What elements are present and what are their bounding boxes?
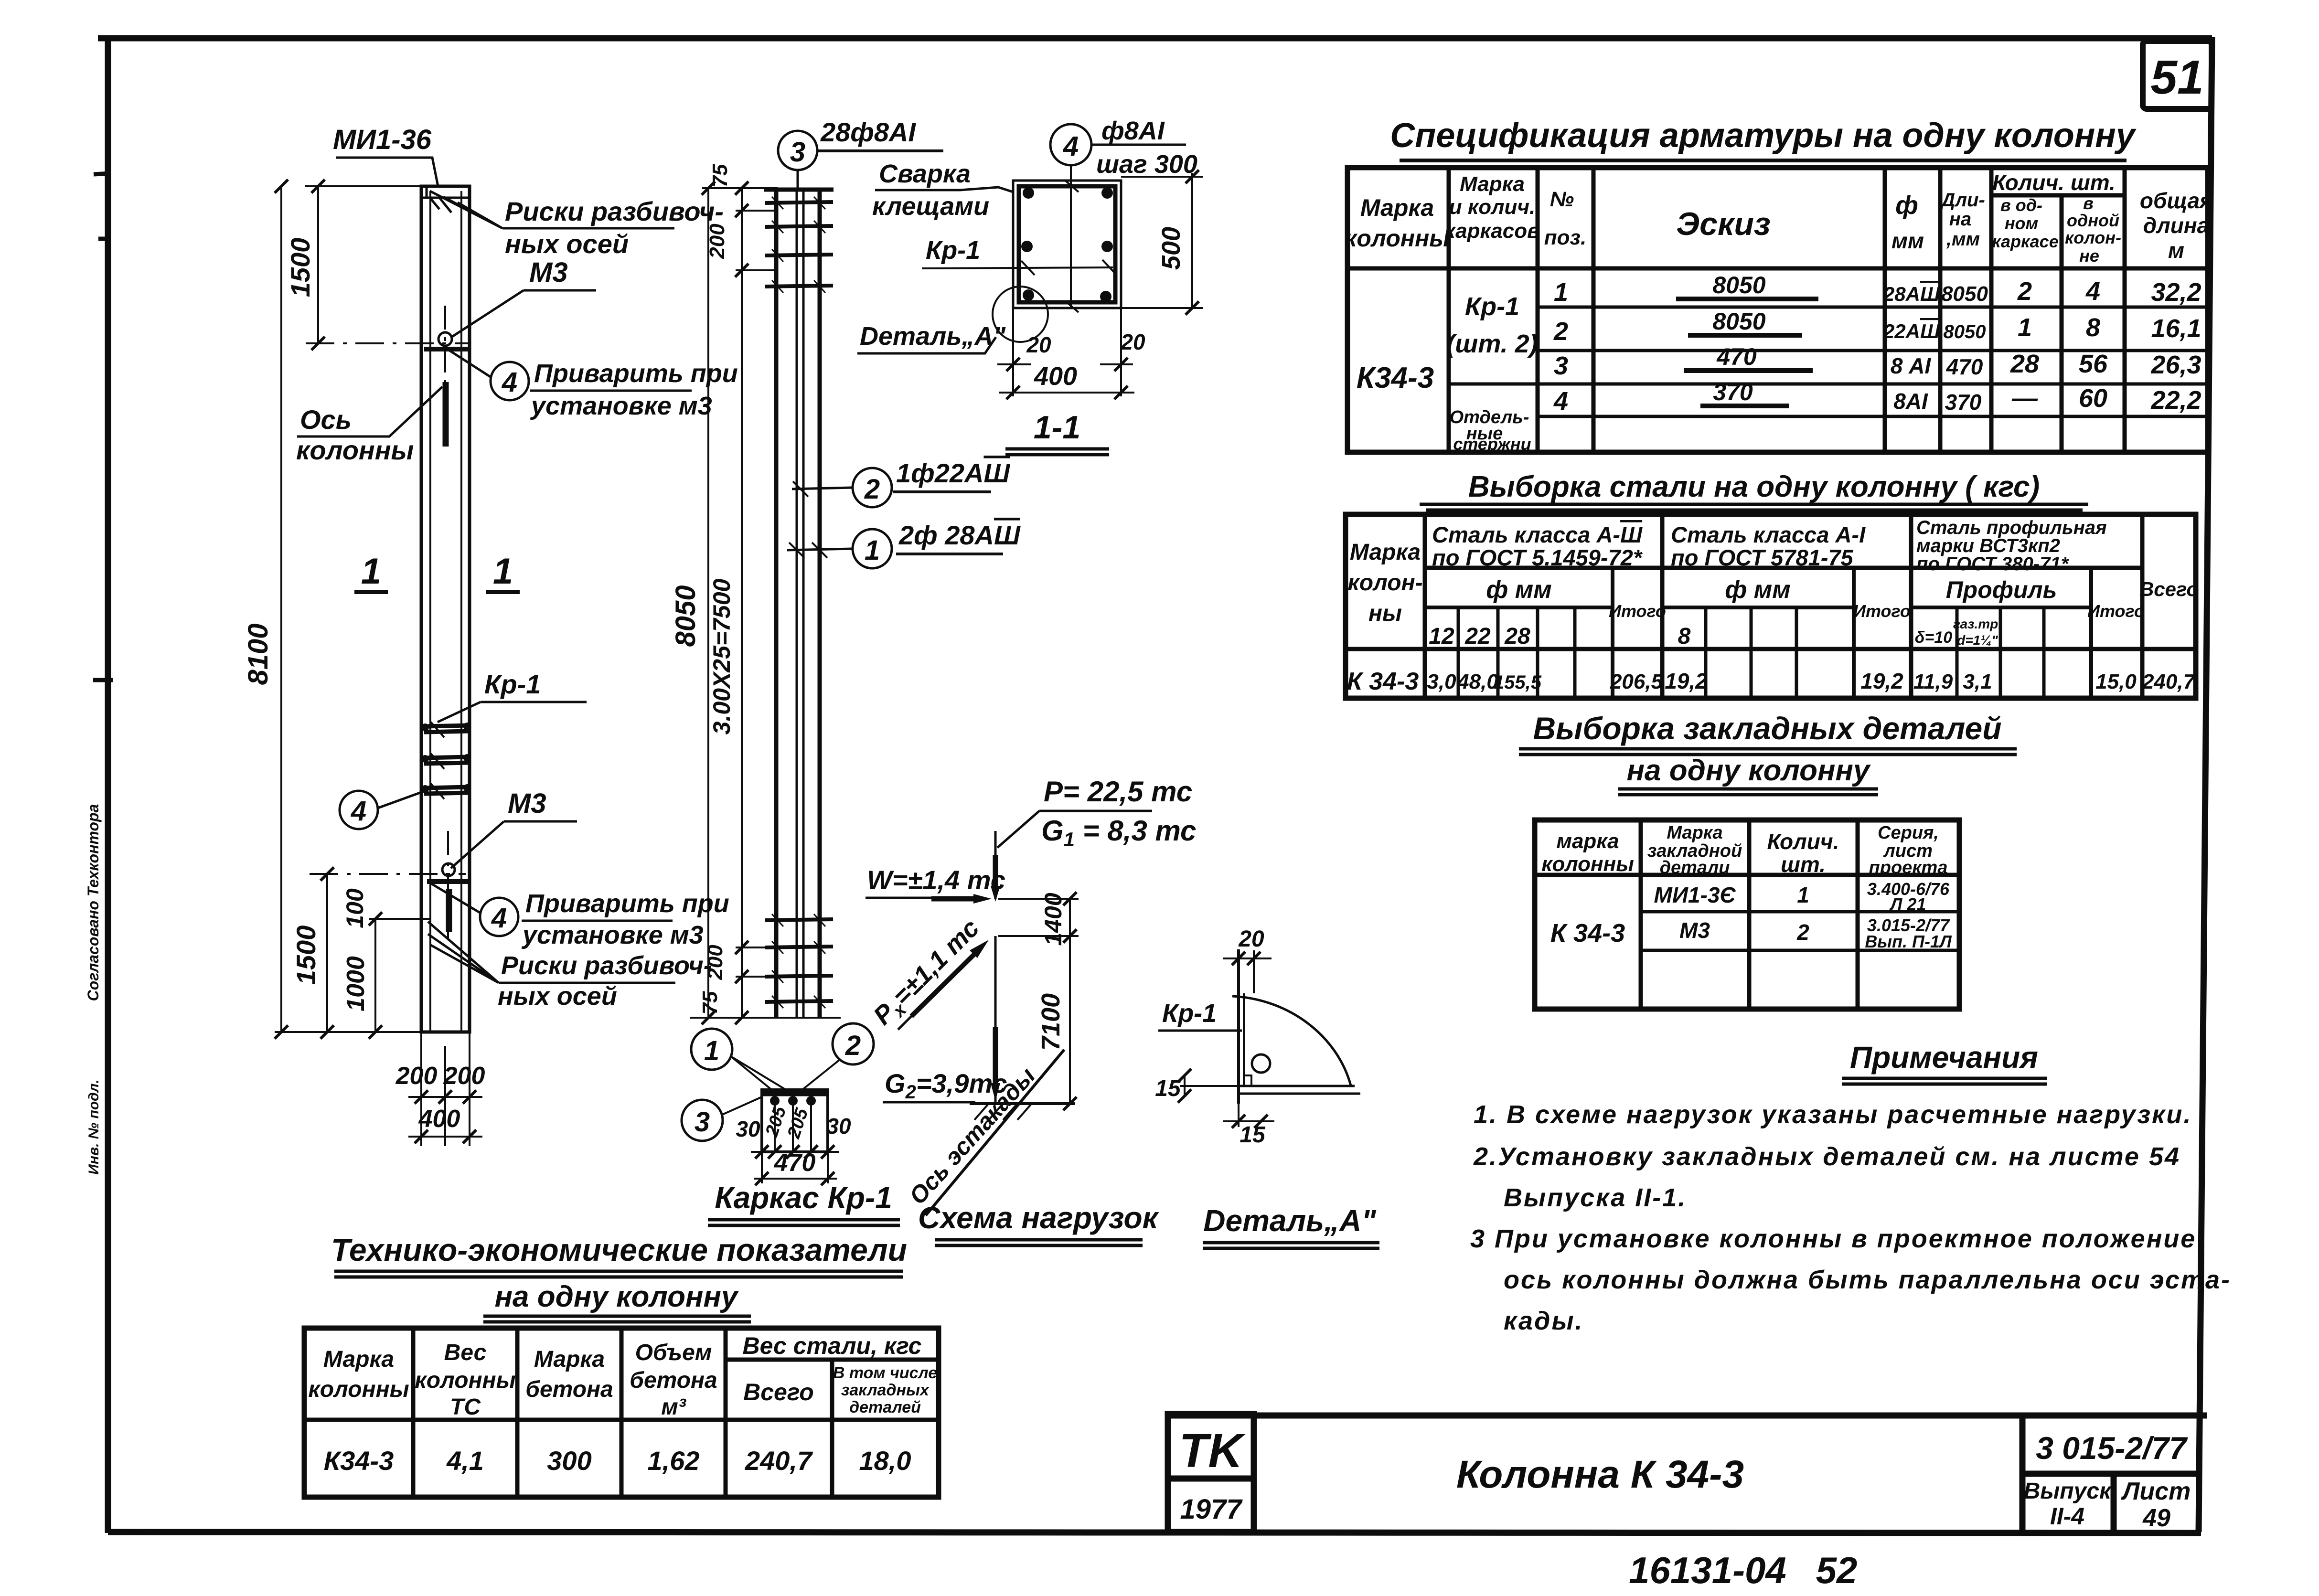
svg-text:колонны: колонны <box>1541 852 1634 876</box>
svg-text:8: 8 <box>1678 624 1691 649</box>
svg-text:по ГОСТ 5.1459-72*: по ГОСТ 5.1459-72* <box>1432 545 1643 570</box>
svg-text:Профиль: Профиль <box>1946 576 2057 603</box>
svg-text:колонны: колонны <box>1345 225 1450 252</box>
svg-text:3,1: 3,1 <box>1963 670 1992 693</box>
notes title: Примечания <box>1842 1040 2047 1084</box>
notes text <box>1470 1100 2231 1335</box>
svg-text:18,0: 18,0 <box>859 1446 911 1476</box>
svg-text:Сталь класса А-І: Сталь класса А-І <box>1671 522 1866 547</box>
svg-text:75: 75 <box>698 991 722 1014</box>
svg-text:3: 3 <box>1554 351 1568 380</box>
caption Схема нагрузок <box>918 1201 1160 1245</box>
svg-text:ф мм: ф мм <box>1486 576 1551 604</box>
plan callouts 1 2 3 <box>682 1023 874 1141</box>
svg-text:11,9: 11,9 <box>1913 670 1953 693</box>
handwritten inventory number <box>1629 1549 1857 1591</box>
svg-text:1: 1 <box>2018 313 2032 342</box>
svg-text:м: м <box>2168 238 2184 263</box>
label Кр-1 with long leader <box>922 236 1116 275</box>
dimension 15 (detail bottom) <box>1223 1104 1274 1148</box>
svg-text:32,2: 32,2 <box>2151 278 2201 307</box>
cage stirrups top <box>765 197 833 293</box>
callout 3 with label 28ф8АІ <box>778 117 943 189</box>
label Риски разбивочных осей (top) <box>430 191 724 259</box>
svg-text:100: 100 <box>342 888 368 928</box>
svg-text:8 АІ: 8 АІ <box>1891 353 1932 378</box>
dimension 100 / 1000 (lower) <box>342 888 430 1039</box>
svg-text:49: 49 <box>2142 1504 2170 1532</box>
section outline <box>1013 181 1121 396</box>
svg-text:II-4: II-4 <box>2050 1503 2084 1530</box>
svg-text:1-1: 1-1 <box>1034 409 1080 446</box>
svg-text:470: 470 <box>774 1149 816 1177</box>
callout 4 (mid) <box>340 790 427 829</box>
svg-text:,мм: ,мм <box>1946 229 1980 250</box>
svg-text:56: 56 <box>2079 350 2108 378</box>
dimensions 20 20 (cover) <box>997 330 1145 371</box>
svg-text:200: 200 <box>704 945 727 980</box>
dimension 1500 (top) <box>285 180 423 350</box>
svg-text:20: 20 <box>1238 926 1264 952</box>
svg-text:на одну колонну: на одну колонну <box>1627 754 1871 787</box>
fold tick marks on left border <box>93 173 113 680</box>
svg-text:ных осей: ных осей <box>498 982 617 1011</box>
label Сварка клещами <box>872 160 1013 221</box>
table 2 title: Выборка стали <box>1420 470 2088 510</box>
wind load W arrow <box>866 865 1005 904</box>
svg-text:К 34-3: К 34-3 <box>1550 919 1625 947</box>
table 2 data row <box>1347 668 2196 695</box>
svg-text:2: 2 <box>2017 277 2032 306</box>
cage longitudinal bars <box>764 188 834 1018</box>
svg-text:15,0: 15,0 <box>2095 670 2137 693</box>
svg-text:200: 200 <box>395 1062 438 1090</box>
svg-text:470: 470 <box>1716 343 1757 370</box>
svg-text:4: 4 <box>502 367 517 398</box>
svg-text:500: 500 <box>1157 227 1186 270</box>
dimension 1400 <box>998 892 1079 946</box>
table 3 title: Выборка закладных деталей <box>1519 711 2017 795</box>
dimension 1500 (lower) <box>291 867 334 1039</box>
label Риски разбивочных осей (lower) <box>428 922 712 1011</box>
svg-text:в од-: в од- <box>2000 195 2042 215</box>
svg-text:15: 15 <box>1155 1076 1181 1101</box>
svg-text:Dеталь„А": Dеталь„А" <box>1203 1203 1376 1238</box>
title block: drawing name <box>1456 1453 1744 1496</box>
load axis with arrows <box>991 831 1000 1104</box>
svg-text:ных осей: ных осей <box>505 229 629 259</box>
svg-text:Каркас Кр-1: Каркас Кр-1 <box>715 1181 892 1215</box>
dimension 15 (detail left) <box>1155 1069 1239 1103</box>
svg-text:колон-: колон- <box>1347 570 1422 596</box>
svg-text:Вес стали, кгс: Вес стали, кгс <box>743 1332 922 1359</box>
svg-text:м³: м³ <box>661 1394 687 1420</box>
svg-text:Колич. шт.: Колич. шт. <box>1992 170 2116 195</box>
svg-text:2: 2 <box>864 474 880 505</box>
callout 2 with label 1ф22АШ <box>792 458 1010 507</box>
svg-text:бетона: бетона <box>630 1368 717 1393</box>
svg-text:№: № <box>1550 188 1574 211</box>
svg-text:Эскиз: Эскиз <box>1676 206 1770 242</box>
TK logo box <box>1168 1414 1254 1479</box>
TEP table data row <box>324 1446 911 1476</box>
table 2 header texts <box>1347 517 2199 649</box>
stirrup bars in left column <box>421 722 471 799</box>
svg-text:12: 12 <box>1429 624 1454 649</box>
svg-text:30: 30 <box>826 1114 851 1138</box>
dimension 500 (right) <box>1121 170 1203 315</box>
svg-text:шаг 300: шаг 300 <box>1096 150 1197 179</box>
svg-text:δ=10: δ=10 <box>1915 628 1953 647</box>
svg-text:3.00X25=7500: 3.00X25=7500 <box>708 578 735 734</box>
svg-text:1500: 1500 <box>291 926 321 985</box>
svg-text:200: 200 <box>443 1062 485 1090</box>
label G2 <box>883 1068 1007 1103</box>
svg-text:колон-: колон- <box>2065 228 2121 247</box>
svg-text:Согласовано Техконтора: Согласовано Техконтора <box>85 804 102 1001</box>
svg-text:8050: 8050 <box>1712 308 1765 335</box>
svg-text:1. В схеме нагрузок указаны: 1. В схеме нагрузок указаны расчетные на… <box>1474 1100 2192 1129</box>
label М3 (lower) with leader <box>451 788 577 868</box>
table 1 frame: спецификация арматуры <box>1347 168 2208 452</box>
svg-text:шт.: шт. <box>1781 852 1826 877</box>
svg-text:28АШ: 28АШ <box>1883 283 1940 305</box>
svg-text:22,2: 22,2 <box>2150 386 2201 415</box>
TEP table texts <box>308 1332 937 1420</box>
svg-text:каркасов: каркасов <box>1444 219 1539 243</box>
svg-text:проекта: проекта <box>1869 858 1948 878</box>
svg-text:клещами: клещами <box>872 192 989 221</box>
cage plan rectangle <box>762 1090 828 1152</box>
section labels 1 1 <box>354 551 520 592</box>
svg-text:1: 1 <box>704 1035 719 1066</box>
svg-text:15: 15 <box>1240 1122 1266 1148</box>
svg-text:Кр-1: Кр-1 <box>484 669 541 699</box>
svg-text:60: 60 <box>2079 384 2107 413</box>
svg-text:26,3: 26,3 <box>2150 351 2201 379</box>
svg-text:48,0: 48,0 <box>1457 670 1498 693</box>
svg-text:К 34-3: К 34-3 <box>1347 668 1419 695</box>
bottom dimensions 200 200 400 of left column <box>395 1032 485 1146</box>
embedded plate МИ1-36 at column top <box>421 186 470 213</box>
title block: series <box>2024 1430 2191 1532</box>
svg-text:W=±1,4 тс: W=±1,4 тс <box>867 865 1005 895</box>
caption 1-1 <box>1005 409 1109 455</box>
svg-text:по ГОСТ 380-71*: по ГОСТ 380-71* <box>1916 553 2070 575</box>
svg-text:Выборка закладных деталей: Выборка закладных деталей <box>1533 711 2001 746</box>
svg-text:Марка: Марка <box>1360 194 1434 221</box>
svg-text:Сварка: Сварка <box>879 160 971 188</box>
svg-text:МИ1-3Є: МИ1-3Є <box>1654 883 1736 907</box>
svg-text:Л 21: Л 21 <box>1889 894 1926 914</box>
svg-text:ны: ны <box>1368 601 1402 626</box>
svg-text:2: 2 <box>1553 317 1568 346</box>
svg-text:4: 4 <box>1063 131 1079 162</box>
svg-text:Вес: Вес <box>444 1340 487 1365</box>
svg-text:Dеталь„А": Dеталь„А" <box>860 322 1006 351</box>
svg-text:1977: 1977 <box>1180 1494 1243 1525</box>
svg-text:К34-3: К34-3 <box>324 1446 394 1476</box>
dimension 400 (bottom) <box>999 362 1134 399</box>
cage stirrups bottom <box>765 914 833 1008</box>
svg-text:8050: 8050 <box>1941 282 1988 306</box>
svg-text:75: 75 <box>708 164 732 187</box>
svg-text:20: 20 <box>1120 330 1145 354</box>
label М3 (upper) with leader <box>451 257 596 337</box>
ground line with hatching <box>970 1104 1075 1120</box>
svg-text:240,7: 240,7 <box>2142 670 2196 693</box>
svg-text:30: 30 <box>736 1117 760 1141</box>
vertical stamp text left margin <box>85 804 102 1175</box>
label МИ1-36 <box>333 124 438 186</box>
svg-text:370: 370 <box>1945 390 1982 415</box>
svg-text:22: 22 <box>1464 624 1491 649</box>
rebar dots in section <box>1021 187 1113 302</box>
svg-text:155,5: 155,5 <box>1494 672 1542 693</box>
svg-text:3: 3 <box>790 137 805 168</box>
svg-text:Колич.: Колич. <box>1767 829 1839 854</box>
svg-text:(шт. 2): (шт. 2) <box>1446 330 1538 358</box>
plate and curve of detail A <box>1232 949 1360 1104</box>
column axis dash-dot (lower) <box>310 831 466 938</box>
svg-text:одной: одной <box>2067 211 2119 230</box>
column axis dash-dot (upper) <box>306 306 468 382</box>
svg-text:8050: 8050 <box>1944 321 1986 342</box>
svg-text:28ф8АІ: 28ф8АІ <box>820 117 916 147</box>
svg-text:300: 300 <box>547 1446 591 1476</box>
svg-text:7100: 7100 <box>1037 993 1065 1051</box>
svg-text:ф8АІ: ф8АІ <box>1101 117 1165 145</box>
svg-text:поз.: поз. <box>1544 226 1586 249</box>
svg-text:на одну колонну: на одну колонну <box>495 1280 739 1313</box>
svg-text:16131-04: 16131-04 <box>1629 1549 1786 1591</box>
svg-text:1: 1 <box>361 551 381 592</box>
table 1 row data <box>1357 272 2201 454</box>
svg-text:детали: детали <box>1660 858 1730 878</box>
svg-text:28: 28 <box>1504 624 1530 649</box>
svg-text:3 При установке колонны в: 3 При установке колонны в проектное поло… <box>1470 1224 2196 1253</box>
svg-text:Итого: Итого <box>1609 601 1666 621</box>
svg-text:кады.: кады. <box>1504 1307 1584 1335</box>
svg-text:Примечания: Примечания <box>1850 1040 2038 1075</box>
svg-text:Кр-1: Кр-1 <box>926 236 980 265</box>
svg-text:колонны: колонны <box>296 435 414 465</box>
svg-text:Выборка стали на одну коло: Выборка стали на одну колонну ( кгс) <box>1468 470 2040 503</box>
svg-text:1: 1 <box>865 535 880 566</box>
dimension 8100 (overall) <box>243 180 425 1039</box>
svg-text:не: не <box>2079 246 2099 266</box>
svg-text:Всего: Всего <box>743 1379 814 1405</box>
svg-text:мм: мм <box>1892 228 1924 253</box>
svg-text:стержни: стержни <box>1453 434 1531 454</box>
caption Каркас Кр-1 <box>708 1181 900 1225</box>
svg-text:Вып. П-1Л: Вып. П-1Л <box>1865 932 1952 951</box>
svg-text:Сталь класса А-Ш: Сталь класса А-Ш <box>1432 522 1643 547</box>
column body outline <box>421 186 470 1032</box>
svg-text:240,7: 240,7 <box>745 1446 813 1476</box>
svg-text:МИ1-36: МИ1-36 <box>333 124 432 155</box>
svg-text:ось колонны должна быть па: ось колонны должна быть параллельна оси … <box>1504 1266 2231 1294</box>
svg-text:каркасе: каркасе <box>1992 232 2058 251</box>
plan dimensions 30 205 205 30 470 <box>736 1104 851 1185</box>
svg-text:ф мм: ф мм <box>1725 576 1790 604</box>
svg-text:2: 2 <box>1796 920 1809 945</box>
table 3 frame: выборка закладных деталей <box>1535 820 1959 1009</box>
svg-text:в: в <box>2083 193 2094 213</box>
svg-text:М3: М3 <box>1679 918 1710 943</box>
svg-text:Марка: Марка <box>1460 172 1525 196</box>
svg-text:400: 400 <box>1034 362 1077 391</box>
svg-text:52: 52 <box>1816 1549 1858 1591</box>
callout 4 with label ф8АІ шаг 300 <box>1050 117 1197 312</box>
svg-text:Лист: Лист <box>2121 1478 2191 1505</box>
ось эстакады diagonal <box>904 1050 1064 1215</box>
svg-text:закладных: закладных <box>841 1381 930 1399</box>
svg-text:3,0: 3,0 <box>1427 670 1456 693</box>
svg-text:8100: 8100 <box>243 623 274 685</box>
svg-text:общая: общая <box>2140 188 2212 213</box>
svg-text:4: 4 <box>2085 277 2100 306</box>
table 2 frame: выборка стали <box>1346 514 2196 698</box>
svg-text:Выпуск: Выпуск <box>2024 1479 2112 1504</box>
svg-text:22АШ: 22АШ <box>1883 320 1940 342</box>
callout 1 with label 2ф28АШ <box>787 520 1021 568</box>
label P and G1 <box>997 776 1196 851</box>
svg-text:деталей: деталей <box>849 1398 921 1416</box>
svg-text:по ГОСТ 5781-75: по ГОСТ 5781-75 <box>1671 545 1854 570</box>
svg-text:4: 4 <box>1553 387 1568 415</box>
svg-text:1: 1 <box>1797 883 1809 907</box>
table 3 texts <box>1541 823 1952 951</box>
dimension lines 8050 / 300x25=7500 <box>670 164 841 1024</box>
table 1 header texts <box>1345 170 2212 266</box>
svg-text:200: 200 <box>705 223 729 259</box>
svg-text:Схема нагрузок: Схема нагрузок <box>918 1201 1160 1235</box>
svg-text:Дли-: Дли- <box>1940 190 1985 211</box>
svg-text:газ.тр.: газ.тр. <box>1953 617 2002 631</box>
TEP table title: Технико-экономические показатели <box>331 1232 907 1322</box>
svg-text:1ф22АШ: 1ф22АШ <box>896 458 1010 488</box>
svg-text:TK: TK <box>1179 1424 1246 1478</box>
svg-text:Марка: Марка <box>1350 540 1421 565</box>
svg-text:Всего: Всего <box>2139 578 2199 600</box>
label Кр-1 with leader (left view) <box>438 669 587 722</box>
svg-text:колонны: колонны <box>308 1377 409 1402</box>
svg-text:Выпуска II-1.: Выпуска II-1. <box>1504 1183 1687 1212</box>
svg-text:Марка: Марка <box>534 1347 605 1372</box>
label Ось колонны <box>296 387 442 465</box>
svg-text:28: 28 <box>2010 350 2039 378</box>
svg-text:1000: 1000 <box>342 956 370 1011</box>
svg-text:470: 470 <box>1946 354 1983 379</box>
svg-text:Кр-1: Кр-1 <box>1465 292 1519 321</box>
svg-text:4: 4 <box>491 903 507 934</box>
svg-text:16,1: 16,1 <box>2151 314 2201 343</box>
svg-text:d=1¼": d=1¼" <box>1957 633 1998 648</box>
svg-text:4: 4 <box>351 796 366 827</box>
title block frame <box>1168 1414 2207 1532</box>
svg-text:3: 3 <box>695 1107 710 1138</box>
TEP table frame <box>304 1328 939 1497</box>
svg-text:8050: 8050 <box>1712 272 1765 298</box>
dimension 7100 <box>1037 936 1077 1110</box>
svg-text:Итого: Итого <box>1853 601 1911 621</box>
svg-text:4,1: 4,1 <box>446 1446 484 1476</box>
svg-text:1400: 1400 <box>1040 893 1067 946</box>
svg-text:Технико-экономические показат: Технико-экономические показатели <box>331 1232 907 1267</box>
svg-text:Итого: Итого <box>2087 601 2145 621</box>
svg-text:Серия,: Серия, <box>1878 823 1939 843</box>
svg-text:2ф 28АШ: 2ф 28АШ <box>898 520 1021 550</box>
svg-text:Ось: Ось <box>300 404 352 435</box>
svg-text:—: — <box>2011 384 2038 413</box>
svg-text:8АІ: 8АІ <box>1893 389 1928 414</box>
svg-text:ф: ф <box>1895 191 1918 220</box>
svg-text:2.Установку закладных детале: 2.Установку закладных деталей см. на лис… <box>1473 1142 2180 1171</box>
svg-text:19,2: 19,2 <box>1665 669 1708 693</box>
svg-text:ном: ном <box>2005 213 2038 233</box>
svg-text:Спецификация арматуры на одн: Спецификация арматуры на одну колонну <box>1390 117 2137 155</box>
svg-text:К34-3: К34-3 <box>1357 362 1434 394</box>
svg-text:и колич.: и колич. <box>1449 195 1535 219</box>
svg-text:400: 400 <box>418 1105 460 1133</box>
svg-text:2: 2 <box>845 1030 861 1061</box>
svg-text:М3: М3 <box>508 788 546 819</box>
svg-text:51: 51 <box>2150 51 2203 104</box>
M3 plate circle (lower) <box>427 863 470 932</box>
svg-text:бетона: бетона <box>525 1377 613 1402</box>
svg-text:20: 20 <box>1026 332 1051 357</box>
svg-text:Объем: Объем <box>635 1340 712 1365</box>
caption Деталь А <box>1203 1203 1379 1248</box>
svg-text:Кр-1: Кр-1 <box>1162 999 1217 1028</box>
callout 4 (lower): Приварить при установке М3 <box>429 883 729 949</box>
svg-text:марка: марка <box>1556 830 1619 853</box>
svg-text:8: 8 <box>2086 313 2100 342</box>
svg-text:3 015-2/77: 3 015-2/77 <box>2036 1430 2188 1466</box>
svg-text:колонны: колонны <box>415 1368 515 1393</box>
svg-text:В том числе: В том числе <box>833 1364 937 1382</box>
svg-text:Приварить при: Приварить при <box>534 359 738 388</box>
callout 4 (upper): Приварить при установке М3 <box>448 350 738 420</box>
svg-text:Риски разбивоч-: Риски разбивоч- <box>505 196 724 226</box>
sheet number box 51 <box>2143 41 2212 109</box>
svg-text:Риски разбивоч-: Риски разбивоч- <box>501 951 712 980</box>
svg-text:ТС: ТС <box>450 1394 481 1420</box>
label Кр-1 (detail) <box>1158 999 1242 1031</box>
svg-text:P= 22,5 тс: P= 22,5 тс <box>1044 776 1192 808</box>
svg-text:Марка: Марка <box>1667 823 1722 843</box>
svg-text:длина: длина <box>2143 213 2210 238</box>
svg-text:установке м3: установке м3 <box>521 921 704 949</box>
svg-text:1500: 1500 <box>285 238 315 298</box>
M3 plate circle (upper) <box>424 332 469 447</box>
svg-text:Приварить при: Приварить при <box>525 889 729 918</box>
svg-text:на: на <box>1949 209 1971 230</box>
svg-text:Инв. № подл.: Инв. № подл. <box>86 1079 102 1174</box>
svg-text:1,62: 1,62 <box>648 1446 700 1476</box>
svg-text:М3: М3 <box>529 257 568 288</box>
svg-text:370: 370 <box>1713 379 1753 405</box>
svg-text:1: 1 <box>1554 278 1568 307</box>
svg-text:19,2: 19,2 <box>1860 669 1903 693</box>
Px load arrow diagonal <box>868 914 989 1033</box>
dimension 20 (detail top) <box>1223 926 1272 993</box>
svg-text:Марка: Марка <box>323 1347 394 1372</box>
table 1 title: Спецификация арматуры <box>1390 117 2137 160</box>
svg-text:1: 1 <box>493 551 513 592</box>
svg-text:8050: 8050 <box>670 585 701 647</box>
